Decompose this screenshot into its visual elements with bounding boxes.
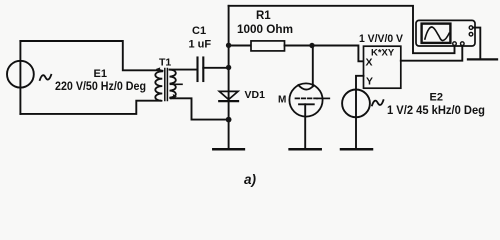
wire Y pin to E2 bbox=[356, 76, 364, 90]
svg-text:R1: R1 bbox=[256, 10, 271, 22]
ground under bus bbox=[213, 148, 244, 151]
diode VD1 bbox=[219, 91, 238, 99]
svg-text:E2: E2 bbox=[430, 92, 443, 104]
node bus-secondary junction bbox=[226, 117, 232, 123]
wire R1 row left bbox=[229, 45, 251, 47]
oscilloscope terminal bottom 2 bbox=[461, 42, 465, 46]
wire C1 right to bus bbox=[203, 67, 228, 69]
ground bar bottom right bbox=[468, 58, 497, 60]
oscilloscope terminal right 2 bbox=[469, 32, 473, 36]
transformer core bbox=[164, 69, 166, 101]
tube M grid stub bbox=[317, 97, 329, 99]
source E2 bbox=[342, 90, 370, 118]
wire E2 vertical to ground bbox=[355, 90, 357, 149]
svg-text:а): а) bbox=[244, 172, 257, 187]
wire cathode to ground bbox=[304, 104, 306, 149]
ground under tube bbox=[290, 148, 321, 151]
wire secondary top to C1 bbox=[170, 69, 197, 71]
svg-text:1 V/2 45 kHz/0 Deg: 1 V/2 45 kHz/0 Deg bbox=[387, 105, 485, 117]
wire E1 bottom loop bbox=[20, 101, 160, 114]
E1 sine mark bbox=[40, 75, 51, 80]
svg-text:220 V/50 Hz/0 Deg: 220 V/50 Hz/0 Deg bbox=[55, 81, 146, 93]
wire anode branch to tube bbox=[312, 46, 314, 87]
node R1-tube junction bbox=[309, 43, 314, 48]
oscilloscope body bbox=[416, 20, 475, 46]
ground under E2 bbox=[341, 148, 372, 151]
svg-text:Y: Y bbox=[366, 76, 373, 88]
tube M anode arc bbox=[298, 85, 314, 90]
transformer T1 secondary winding bbox=[170, 70, 176, 99]
tube M envelope bbox=[289, 83, 322, 116]
svg-text:X: X bbox=[366, 57, 373, 69]
svg-text:1000 Ohm: 1000 Ohm bbox=[237, 24, 293, 36]
oscilloscope terminal right 1 bbox=[469, 26, 473, 30]
capacitor C1 plates bbox=[196, 58, 198, 82]
T1 secondary polarity arrow bbox=[173, 94, 177, 99]
oscilloscope screen bbox=[422, 24, 451, 43]
wire E1 top loop bbox=[20, 41, 160, 70]
transformer T1 primary winding bbox=[155, 71, 162, 101]
T1 primary top lead bbox=[160, 69, 162, 72]
svg-text:K*XY: K*XY bbox=[371, 48, 395, 59]
svg-text:M: M bbox=[278, 95, 286, 106]
svg-text:1 uF: 1 uF bbox=[189, 39, 212, 51]
node bus-C1 junction bbox=[226, 65, 231, 70]
wire top rail to scope bbox=[229, 6, 455, 53]
E2 sine mark bbox=[372, 100, 383, 105]
resistor R1 bbox=[251, 41, 285, 51]
wire scope right terminal down bbox=[473, 28, 481, 60]
svg-text:T1: T1 bbox=[159, 57, 171, 69]
wire E1 vertical through source bbox=[19, 41, 21, 114]
wire R1 to X input bbox=[285, 46, 364, 62]
multiplier U1 box bbox=[364, 46, 401, 88]
svg-text:VD1: VD1 bbox=[245, 89, 266, 101]
tube M grid dashed bbox=[296, 97, 318, 99]
wire multiplier output to scope bbox=[401, 45, 463, 60]
tube M cathode bbox=[299, 103, 314, 105]
T1 primary polarity arrow bbox=[156, 67, 160, 72]
node bus-R1 junction bbox=[226, 43, 231, 48]
oscilloscope trace bbox=[425, 27, 449, 41]
source E1 bbox=[7, 61, 34, 88]
svg-text:1 V/V/0 V: 1 V/V/0 V bbox=[359, 33, 404, 45]
svg-text:C1: C1 bbox=[192, 25, 206, 37]
oscilloscope terminal bottom 1 bbox=[453, 42, 457, 46]
svg-text:E1: E1 bbox=[94, 68, 107, 80]
T1 secondary center tap stub bbox=[171, 83, 183, 85]
wire main vertical bus bbox=[228, 6, 230, 149]
wire secondary bottom bbox=[171, 98, 229, 119]
